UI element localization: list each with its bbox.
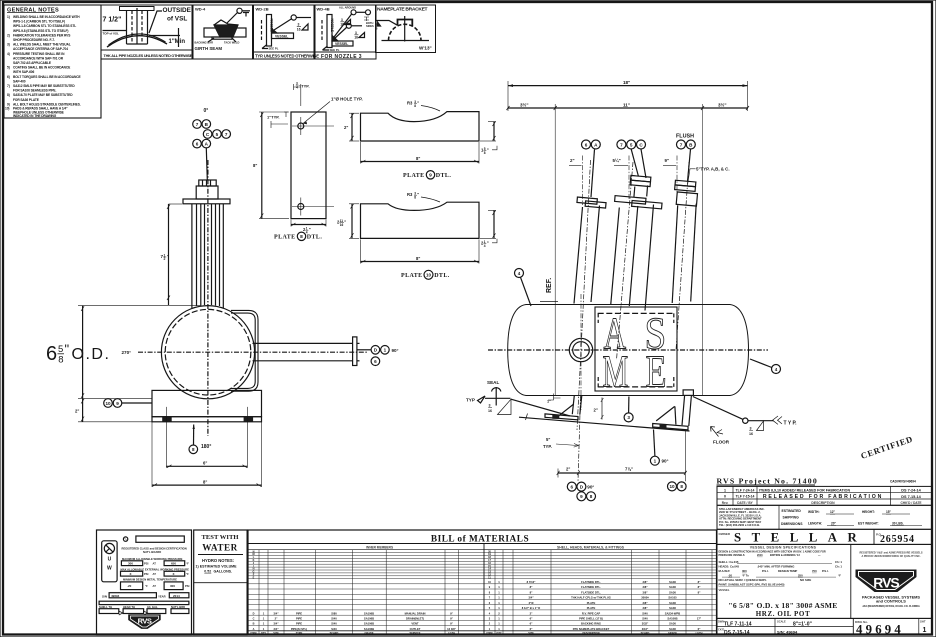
svg-text:5¼": 5¼" [613, 158, 621, 163]
dim 2" [351, 113, 353, 141]
plate 9 body [361, 112, 480, 141]
svg-text:5: 5 [630, 142, 633, 147]
svg-text:A: A [253, 628, 255, 631]
svg-text:2: 2 [164, 257, 166, 261]
svg-text:": " [417, 101, 419, 106]
horizontal centerline [138, 351, 368, 353]
svg-text:2": 2" [594, 408, 598, 413]
svg-text:PIPE(S=STL): PIPE(S=STL) [291, 627, 307, 631]
svg-text:SA36: SA36 [669, 606, 676, 610]
svg-text:0.52: 0.52 [204, 569, 211, 573]
dim 3/4 typ [294, 84, 301, 106]
svg-text:6": 6" [698, 627, 701, 631]
svg-text:OUTSIDE: OUTSIDE [163, 7, 192, 14]
svg-text:700: 700 [812, 569, 817, 573]
svg-text:9": 9" [450, 622, 453, 626]
svg-text:R3: R3 [407, 101, 413, 106]
svg-text:QTY: QTY [496, 632, 501, 635]
svg-text:7: 7 [620, 142, 623, 147]
svg-text:SHELL: Ca.045: SHELL: Ca.045 [719, 560, 739, 564]
svg-text:6: 6 [374, 359, 377, 364]
svg-text:M.A.W.P.: M.A.W.P. [719, 569, 731, 573]
svg-text:16: 16 [488, 409, 492, 413]
svg-text:P.S.I.: P.S.I. [822, 569, 829, 573]
svg-text:T Y P.: T Y P. [784, 421, 798, 427]
balloon D [371, 346, 380, 355]
svg-text:—: — [818, 554, 821, 557]
svg-text:INDICATED IN THE DRAWING: INDICATED IN THE DRAWING [13, 114, 57, 118]
svg-text:AT: AT [153, 584, 157, 588]
svg-text:EDITION & ADDENDA '13: EDITION & ADDENDA '13 [770, 554, 800, 557]
svg-text:NAMEPLATE BRACKET: NAMEPLATE BRACKET [377, 7, 428, 13]
svg-text:W: W [107, 566, 112, 572]
detail box: WD-2B typ weld [254, 5, 320, 59]
svg-text:8: 8 [590, 494, 593, 499]
balloon 3 [624, 413, 633, 422]
svg-text:and CONTROLS: and CONTROLS [876, 599, 906, 604]
svg-text:.045" MIN. AFTER FORMING: .045" MIN. AFTER FORMING [757, 564, 794, 568]
svg-text:OWNER: OWNER [719, 532, 731, 536]
balloon 6d [371, 357, 380, 366]
svg-text:30 LBS.: 30 LBS. [892, 522, 904, 526]
svg-text:SHELL, HEADS, MATERIALS, & FIT: SHELL, HEADS, MATERIALS, & FITTINGS [557, 545, 625, 549]
weld symbol left TYP [466, 396, 570, 416]
svg-text:6: 6 [489, 602, 491, 605]
svg-text:SCHED: SCHED [641, 632, 650, 635]
svg-text:AT: AT [153, 572, 157, 576]
balloon 1 leg [650, 456, 659, 465]
svg-text:2"Ø: 2"Ø [529, 601, 534, 605]
top of vsl line [103, 30, 127, 32]
svg-text:CHK'D / DATE: CHK'D / DATE [900, 501, 921, 505]
left leg [545, 396, 582, 482]
svg-text:SERVICE: SERVICE [410, 632, 421, 635]
svg-text:TYP. UNLESS NOTED OTHERWISE: TYP. UNLESS NOTED OTHERWISE [255, 54, 319, 59]
svg-text:8: 8 [414, 104, 416, 108]
svg-text:3): 3) [7, 43, 10, 47]
svg-text:RVS: RVS [138, 617, 152, 626]
svg-text:S/N: S/N [102, 594, 107, 598]
svg-text:S/40: S/40 [642, 611, 648, 615]
svg-text:16: 16 [749, 432, 753, 436]
svg-text:2: 2 [489, 623, 491, 626]
svg-text:E: E [253, 576, 255, 579]
svg-text:°F: °F [186, 562, 189, 566]
balloon 10 [104, 399, 113, 408]
svg-text:RTE NAMEPLATE BRACKET: RTE NAMEPLATE BRACKET [573, 627, 610, 631]
leaders with circles [334, 14, 352, 38]
svg-text:SA36: SA36 [669, 590, 676, 594]
vessel shell [508, 305, 749, 396]
svg-text:RVS Project No. 71400: RVS Project No. 71400 [717, 477, 818, 486]
svg-text:TLF 7-15-14: TLF 7-15-14 [736, 495, 755, 499]
balloon 5 [213, 130, 222, 139]
leader with circle [274, 19, 292, 31]
shipping block [717, 505, 932, 529]
svg-text:3½": 3½" [718, 101, 727, 107]
vessel plate [332, 41, 353, 46]
svg-text:°F: °F [838, 573, 841, 577]
svg-text:3: 3 [489, 618, 491, 621]
svg-text:650: 650 [171, 562, 176, 566]
svg-text:CERTIFIED: CERTIFIED [859, 434, 914, 461]
svg-text:8: 8 [58, 355, 63, 366]
svg-text:16: 16 [340, 223, 344, 227]
value boxes row2 [121, 571, 190, 576]
svg-text:THK HALF CPLG w/ THK PLUG: THK HALF CPLG w/ THK PLUG [571, 596, 611, 600]
svg-text:DATE / BY: DATE / BY [737, 501, 753, 505]
svg-text:3/4": 3/4" [273, 622, 279, 626]
nozzle pipes to vessel [192, 204, 223, 308]
svg-text:AT: AT [153, 562, 157, 566]
svg-text:FLUSH: FLUSH [676, 134, 694, 140]
svg-text:3: 3 [489, 404, 491, 408]
svg-text:HYDRO NOTES:: HYDRO NOTES: [202, 558, 234, 563]
svg-text:SAP-702 AS APPLICABLE: SAP-702 AS APPLICABLE [13, 61, 52, 65]
stamp symbol [102, 541, 117, 582]
svg-text:PSI: PSI [185, 584, 190, 588]
balloon 9b [577, 492, 586, 501]
detail box: WD-4 girth seam weld [193, 5, 253, 59]
svg-text:Ch: 1: Ch: 1 [835, 560, 842, 564]
left item letters [252, 550, 254, 631]
svg-text:8: 8 [484, 151, 486, 155]
svg-text:6: 6 [196, 141, 199, 146]
svg-text:11": 11" [623, 102, 630, 107]
svg-text:7⅞": 7⅞" [625, 467, 633, 472]
dim 8" [361, 261, 480, 263]
svg-text:SA516-70 PLATE MAY BE SUBSTITU: SA516-70 PLATE MAY BE SUBSTITUTED [13, 93, 73, 97]
svg-text:6: 6 [585, 142, 588, 147]
svg-text:1: 1 [263, 611, 265, 615]
svg-text:LGTH: LGTH [696, 632, 703, 635]
svg-text:90°: 90° [662, 459, 669, 464]
svg-text:5: 5 [58, 344, 63, 355]
svg-text:8": 8" [416, 256, 420, 261]
svg-text:5): 5) [7, 66, 10, 70]
svg-text:FOR SA36 PLATE: FOR SA36 PLATE [13, 98, 40, 102]
svg-text:9: 9 [489, 586, 491, 589]
vessel circle inner dashed [165, 309, 251, 395]
nozzle B assembly [672, 149, 697, 350]
svg-text:TYP: TYP [466, 398, 475, 403]
svg-text:1: 1 [263, 617, 265, 621]
balloon 8b [587, 492, 596, 501]
leader to base [122, 402, 152, 404]
svg-text:SA36: SA36 [669, 627, 676, 631]
svg-text:1: 1 [384, 348, 387, 353]
revision table [717, 486, 932, 505]
svg-text:300: 300 [170, 584, 175, 588]
svg-text:3/32": 3/32" [642, 622, 649, 626]
detail box: WD-4B for nozzle 3 [315, 5, 376, 60]
svg-text:8 7/16": 8 7/16" [527, 580, 536, 584]
svg-text:TEST WITH: TEST WITH [202, 534, 240, 541]
svg-text:3: 3 [341, 18, 343, 22]
dim 2 11/16 [351, 204, 353, 239]
svg-text:8": 8" [416, 156, 420, 161]
svg-text:TEL: (904) 260-2900 x.110 F.O.: TEL: (904) 260-2900 x.110 F.O.B. [719, 523, 760, 527]
balloon 8c [677, 482, 686, 491]
svg-text:PLATE: PLATE [274, 235, 296, 241]
balloon 7r [677, 140, 686, 149]
svg-text:8: 8 [680, 484, 683, 489]
svg-text:SA105: SA105 [668, 596, 677, 600]
svg-text:TYP.: TYP. [543, 444, 552, 449]
balloon 10b [668, 482, 677, 491]
svg-text:49694: 49694 [111, 594, 120, 598]
svg-text:2014: 2014 [173, 594, 180, 598]
svg-text:A: A [205, 141, 209, 146]
svg-text:SA106B: SA106B [667, 617, 677, 621]
dim 2 1/4 [291, 224, 326, 226]
svg-text:3/4": 3/4" [273, 611, 279, 615]
dim 8" [361, 161, 480, 163]
svg-text:WD-4: WD-4 [195, 7, 206, 12]
svg-text:8: 8 [489, 591, 491, 594]
svg-text:3/8": 3/8" [642, 601, 648, 605]
svg-text:1"TYP.: 1"TYP. [267, 115, 280, 120]
vessel centerline [488, 349, 768, 351]
svg-text:1: 1 [263, 622, 265, 626]
svg-text:49694: 49694 [856, 622, 904, 636]
svg-text:THK ALL PIPE NOZZLES UNLESS NO: THK ALL PIPE NOZZLES UNLESS NOTED OTHERW… [104, 54, 193, 58]
svg-text:LENGTH:: LENGTH: [808, 522, 822, 526]
svg-text:JAX (REGISTERED) OFFICE, DUVAL: JAX (REGISTERED) OFFICE, DUVAL CO. FLORI… [862, 605, 920, 608]
vessel circle outer [161, 306, 254, 399]
column lines left [259, 550, 459, 635]
detail box: nozzle projection "OUTSIDE of VSL" [101, 5, 193, 59]
svg-text:ALL AROUND: ALL AROUND [339, 6, 356, 10]
svg-text:1: 1 [498, 606, 500, 610]
svg-text:4): 4) [7, 52, 10, 56]
svg-text:10: 10 [488, 581, 491, 584]
balloon B [202, 120, 211, 129]
svg-text:": " [417, 192, 419, 197]
svg-text:STELLAR: STELLAR [734, 531, 867, 545]
dim 6" [166, 461, 247, 468]
svg-text:A: A [594, 142, 598, 147]
svg-text:PLATE: PLATE [401, 273, 423, 279]
svg-text:2): 2) [7, 33, 10, 37]
svg-text:17": 17" [697, 617, 702, 621]
nozzle pipe section [120, 7, 155, 11]
svg-text:Rev.: Rev. [722, 501, 729, 505]
svg-text:11: 11 [488, 576, 491, 579]
right item numbers [488, 550, 491, 631]
svg-text:SIZE: SIZE [273, 632, 279, 635]
svg-text:270°: 270° [122, 350, 132, 355]
svg-text:RELEASED FOR FABRICATION: RELEASED FOR FABRICATION [763, 494, 883, 500]
svg-text:": " [309, 227, 311, 232]
svg-text:": " [167, 254, 169, 259]
svg-text:NO SIZE: NO SIZE [800, 578, 811, 582]
svg-text:4: 4 [484, 244, 486, 248]
bottom dims 2" and 7 7/8" [557, 467, 687, 478]
svg-text:9: 9 [116, 401, 119, 406]
svg-text:TOP of VSL: TOP of VSL [103, 32, 120, 36]
bottom label boxes [99, 605, 185, 609]
top name box [136, 536, 184, 542]
svg-text:SA106B: SA106B [364, 622, 374, 626]
svg-text:VENT: VENT [411, 622, 419, 626]
plate 8 holes [292, 117, 334, 216]
dim 18" [508, 80, 748, 111]
svg-text:1: 1 [498, 627, 500, 631]
svg-text:300: 300 [742, 569, 747, 573]
dim 7 1/2 [161, 204, 183, 305]
svg-text:8": 8" [698, 585, 701, 589]
svg-text:SAP-400: SAP-400 [13, 79, 26, 83]
svg-text:2": 2" [570, 158, 575, 163]
bottom flag [262, 45, 268, 49]
svg-text:YEAR: YEAR [158, 594, 166, 598]
svg-text:4: 4 [489, 612, 491, 615]
svg-text:1: 1 [498, 590, 500, 594]
svg-text:8: 8 [300, 234, 303, 240]
svg-text:ALL WELDS SHALL MEET THE VISUA: ALL WELDS SHALL MEET THE VISUAL [13, 43, 71, 47]
dim 8" [261, 112, 263, 219]
svg-text:-20: -20 [728, 573, 732, 577]
svg-text:P.S.I.: P.S.I. [762, 569, 769, 573]
svg-text:REF.: REF. [546, 278, 553, 293]
top flange stack [183, 180, 230, 204]
plate 10 body [361, 202, 480, 238]
svg-text:9: 9 [580, 494, 583, 499]
svg-text:S/40: S/40 [331, 627, 337, 631]
svg-text:DS 7-24-14: DS 7-24-14 [901, 488, 921, 492]
svg-text:1: 1 [498, 585, 500, 589]
svg-text:2": 2" [75, 409, 79, 414]
plate 8 body [291, 112, 326, 219]
svg-text:5: 5 [489, 607, 491, 610]
svg-text:ACCORDANCE WITH SAP-701 OR: ACCORDANCE WITH SAP-701 OR [13, 56, 64, 60]
stellar row [717, 529, 932, 544]
svg-text:1: 1 [263, 627, 265, 631]
svg-text:0: 0 [724, 495, 726, 499]
svg-text:SA106B: SA106B [364, 611, 374, 615]
svg-text:S/80: S/80 [331, 611, 337, 615]
svg-text:1"Ø HOLE TYP.: 1"Ø HOLE TYP. [331, 97, 363, 102]
svg-text:3/8": 3/8" [642, 606, 648, 610]
svg-text:"6 5/8" O.D. x 18" 300# ASME: "6 5/8" O.D. x 18" 300# ASME [728, 601, 837, 610]
svg-text:9": 9" [665, 158, 670, 163]
svg-text:MINIMUM DESIGN METAL TEMPERATU: MINIMUM DESIGN METAL TEMPERATURE [123, 578, 177, 582]
balloon 6b [567, 482, 576, 491]
balloon Db [577, 482, 586, 491]
svg-text:3: 3 [298, 23, 300, 27]
svg-text:10: 10 [105, 401, 111, 406]
value boxes row3 [121, 582, 190, 590]
svg-text:S/N: 49694: S/N: 49694 [777, 630, 798, 635]
svg-text:3000#: 3000# [641, 596, 649, 600]
svg-text:10: 10 [669, 484, 675, 489]
svg-text:ITEM: ITEM [251, 632, 257, 635]
svg-text:QTY: QTY [261, 632, 266, 635]
svg-text:3/8": 3/8" [642, 590, 648, 594]
svg-text:NOZZLE: NOZZLE [330, 19, 334, 33]
leader from flange to D [357, 349, 371, 351]
svg-text:SA36: SA36 [669, 601, 676, 605]
svg-text:3: 3 [627, 415, 630, 420]
SN row [102, 593, 189, 599]
balloon C [203, 130, 212, 139]
ASME stamp box [595, 307, 677, 397]
balloon 8 with 180 label [189, 445, 198, 454]
svg-text:1): 1) [7, 15, 10, 19]
column lines right [495, 550, 712, 635]
svg-text:D: D [253, 612, 255, 615]
svg-text:WD-4B: WD-4B [317, 7, 330, 12]
svg-text:C: C [206, 132, 210, 137]
svg-text:FLATSIDE DTL.: FLATSIDE DTL. [581, 585, 601, 589]
svg-text:VESSEL: VESSEL [335, 42, 348, 46]
weld symbol right TYP [693, 397, 797, 436]
svg-text:8": 8" [530, 585, 533, 589]
svg-text:O.D.: O.D. [72, 346, 111, 363]
svg-text:3/8": 3/8" [642, 585, 648, 589]
svg-text:OUTLET: OUTLET [410, 627, 421, 631]
svg-text:90°: 90° [587, 485, 594, 490]
svg-text:°F: °F [186, 572, 189, 576]
svg-text:PRESSURE VESSELS: PRESSURE VESSELS [719, 554, 745, 557]
svg-text:DESIGN TEMP: DESIGN TEMP [778, 569, 797, 573]
balloon Ar [591, 140, 600, 149]
svg-text:7 1/2": 7 1/2" [103, 17, 122, 24]
nozzle plate vertical [267, 15, 272, 47]
svg-text:9": 9" [450, 611, 453, 615]
svg-text:CAD#RVS#49694: CAD#RVS#49694 [890, 480, 916, 484]
svg-text:": " [487, 241, 489, 246]
svg-text:6: 6 [46, 343, 57, 365]
bottom header row [251, 632, 456, 635]
svg-text:3: 3 [750, 427, 752, 431]
balloon 9 [113, 399, 122, 408]
svg-text:300: 300 [128, 562, 133, 566]
balloon 6 [193, 139, 202, 148]
svg-text:ESTIMATED: ESTIMATED [782, 509, 802, 513]
svg-text:WPS-9-8 (STAINLESS STL TO ITSE: WPS-9-8 (STAINLESS STL TO ITSELF) [13, 29, 68, 33]
svg-text:B: B [205, 122, 209, 127]
svg-text:8: 8 [376, 26, 378, 30]
svg-text:INNER MEMBERS: INNER MEMBERS [366, 546, 393, 550]
svg-text:GIRTH SEAM: GIRTH SEAM [195, 46, 223, 51]
svg-text:180°: 180° [201, 444, 211, 450]
svg-text:WIDTH:: WIDTH: [808, 510, 820, 514]
nozzle position dims [569, 156, 677, 206]
svg-text:DS 7-15-14: DS 7-15-14 [724, 630, 750, 636]
svg-text:SEAL: SEAL [487, 380, 499, 385]
nameplate bracket edge view [231, 310, 258, 391]
svg-text:6): 6) [7, 75, 10, 79]
svg-text:NAT'L BOARD: NAT'L BOARD [143, 550, 161, 554]
svg-text:WPS-1-1 (CARBON STL TO ITSELF): WPS-1-1 (CARBON STL TO ITSELF) [13, 20, 65, 24]
svg-text:WD-2B: WD-2B [256, 7, 269, 12]
svg-text:RVS: RVS [873, 575, 899, 591]
svg-text:U: U [108, 557, 112, 563]
row lines [248, 553, 717, 626]
vertical centerline [207, 160, 209, 436]
svg-text:PIPE: PIPE [296, 622, 302, 626]
svg-text:VESSEL: VESSEL [719, 588, 730, 592]
svg-text:B: B [253, 623, 255, 626]
svg-text:250: 250 [798, 573, 803, 577]
svg-text:5"TYP. A,B, & C.: 5"TYP. A,B, & C. [696, 167, 730, 172]
svg-text:DRAIN(INLET): DRAIN(INLET) [406, 617, 424, 621]
svg-text:BOLT TORQUES SHALL BE IN ACCOR: BOLT TORQUES SHALL BE IN ACCORDANCE [13, 75, 81, 79]
svg-text:DTL.: DTL. [307, 235, 323, 241]
dim 2 1/4 right [493, 210, 495, 238]
